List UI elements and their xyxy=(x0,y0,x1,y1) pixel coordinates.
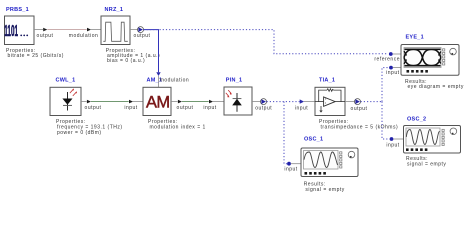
TIA_1 label xyxy=(319,77,335,83)
OSC_2 label xyxy=(407,117,426,123)
EYE_1 input label xyxy=(386,70,399,76)
svg-text:output: output xyxy=(351,106,368,112)
OSC_1 connector squares xyxy=(340,152,342,168)
OSC_1 buttons row xyxy=(305,172,326,175)
svg-text:bias = 0 (a.u.): bias = 0 (a.u.) xyxy=(107,58,145,64)
svg-text:modulation: modulation xyxy=(69,33,98,39)
TIA_1 op-amp icon xyxy=(315,89,345,113)
svg-text:input: input xyxy=(386,70,399,76)
NRZ_1 modulation input arrow xyxy=(87,28,91,32)
OSC_1 label xyxy=(304,137,323,143)
AM_1 output port label xyxy=(177,105,194,111)
svg-text:TIA_1: TIA_1 xyxy=(319,77,335,83)
AM_1 properties text xyxy=(148,119,206,130)
OSC_1 instrument box xyxy=(301,148,358,177)
AM_1 input stub xyxy=(133,101,143,103)
AM_1 label xyxy=(147,77,163,83)
svg-text:input: input xyxy=(386,142,399,148)
OSC_1 input node dot xyxy=(287,162,291,166)
EYE_1 connector squares xyxy=(443,49,445,65)
NRZ_1 box xyxy=(101,16,130,45)
EYE_1 instrument box xyxy=(401,45,459,76)
OSC_2 input label xyxy=(386,142,399,148)
AM_1 icon AM text xyxy=(146,93,170,111)
PRBS_1 properties text xyxy=(6,48,64,59)
NRZ_1 output port circle xyxy=(138,27,144,33)
svg-text:OSC_1: OSC_1 xyxy=(304,137,323,143)
PIN_1 output port label xyxy=(255,105,272,111)
PIN_1 label xyxy=(226,77,243,83)
svg-text:input: input xyxy=(284,166,297,172)
TIA_1 input label xyxy=(295,106,308,112)
PIN_1 output stub xyxy=(252,101,261,103)
TIA_1 properties text xyxy=(319,119,398,130)
OSC_2 knob xyxy=(450,128,457,135)
CWL_1 properties text xyxy=(56,119,123,136)
svg-text:transimpedance = 5 (kOhms): transimpedance = 5 (kOhms) xyxy=(321,125,399,131)
NRZ_1 icon waveform xyxy=(103,22,128,41)
svg-text:input: input xyxy=(203,105,216,111)
PIN_1 input arrow xyxy=(209,100,213,104)
PIN_1 box xyxy=(224,87,252,115)
PRBS_1 box xyxy=(5,16,35,45)
OSC_2 instrument box xyxy=(404,126,461,154)
svg-text:CWL_1: CWL_1 xyxy=(56,77,76,83)
wire junction to EYE_1.input (dashed) xyxy=(382,68,388,102)
OSC_2 input node dot xyxy=(390,137,394,141)
OSC_2 connector squares xyxy=(442,129,444,145)
PRBS_1 icon bits 1101... xyxy=(4,22,28,40)
OSC_1 input stub xyxy=(291,163,301,165)
NRZ_1 output port label xyxy=(134,33,151,39)
CWL_1 output port label xyxy=(85,105,102,111)
TIA_1 input stub xyxy=(304,101,315,103)
EYE_1 reference label xyxy=(374,56,400,62)
CWL_1 label xyxy=(56,77,76,83)
AM_1 input arrow xyxy=(129,100,133,104)
svg-text:input: input xyxy=(124,105,137,111)
EYE_1 input stub xyxy=(393,67,401,69)
svg-text:PIN_1: PIN_1 xyxy=(226,77,243,83)
EYE_1 screen with eye diagram xyxy=(404,48,441,68)
PRBS_1 output stub xyxy=(34,29,43,31)
OSC_1 input label xyxy=(284,166,297,172)
PIN_1 input stub xyxy=(213,101,224,103)
svg-text:1101: 1101 xyxy=(4,22,18,40)
NRZ_1 output stub xyxy=(130,29,138,31)
EYE_1 reference stub xyxy=(393,53,401,55)
svg-text:signal = empty: signal = empty xyxy=(407,161,446,167)
svg-text:modulation index = 1: modulation index = 1 xyxy=(150,125,206,131)
AM_1 modulation top label xyxy=(160,77,189,83)
PIN_1 input label xyxy=(203,105,216,111)
CWL_1 output port arrow xyxy=(87,100,91,104)
wire NRZ_1.output to AM_1.modulation (electrical) xyxy=(144,30,159,73)
wire AM_1.output to PIN_1.input (optical) xyxy=(182,101,209,103)
svg-text:signal = empty: signal = empty xyxy=(305,187,344,193)
EYE_1 label xyxy=(406,34,424,40)
TIA_1 input arrow xyxy=(300,99,304,103)
OSC_2 buttons row xyxy=(406,148,427,151)
svg-text:output: output xyxy=(37,33,54,39)
wire branch PIN_1.output to OSC_1.input (dashed) xyxy=(284,102,287,164)
svg-text:EYE_1: EYE_1 xyxy=(406,34,424,40)
AM_1 box xyxy=(143,87,171,115)
svg-text:modulation: modulation xyxy=(160,77,189,83)
wire PIN_1.output to TIA_1.input (dashed) xyxy=(267,101,300,103)
TIA_1 output port label xyxy=(351,106,368,112)
svg-text:PRBS_1: PRBS_1 xyxy=(6,7,29,13)
wire PRBS_1.output to NRZ_1.modulation (binary) xyxy=(47,29,86,31)
wire CWL_1.output to AM_1.input (optical) xyxy=(91,101,129,103)
svg-text:output: output xyxy=(255,105,272,111)
PIN_1 photodiode icon xyxy=(226,90,242,112)
TIA_1 output stub xyxy=(345,101,355,103)
OSC_1 screen with sine xyxy=(304,151,339,170)
AM_1 input label xyxy=(124,105,137,111)
svg-text:bitrate = 25 (Gbits/s): bitrate = 25 (Gbits/s) xyxy=(8,53,64,59)
svg-text:output: output xyxy=(177,105,194,111)
TIA_1 box xyxy=(315,87,345,115)
svg-text:reference: reference xyxy=(374,56,400,62)
CWL_1 box xyxy=(50,87,81,115)
PIN_1 output port circle xyxy=(261,99,267,105)
CWL_1 laser diode icon xyxy=(62,88,77,110)
PRBS_1 output port label xyxy=(37,33,54,39)
svg-text:OSC_2: OSC_2 xyxy=(407,117,426,123)
EYE_1 results text xyxy=(405,79,464,90)
svg-text:input: input xyxy=(295,106,308,112)
OSC_1 results text xyxy=(304,182,345,193)
wire junction to OSC_2.input (dashed) xyxy=(382,102,389,139)
EYE_1 knob xyxy=(450,48,457,55)
svg-text:output: output xyxy=(134,33,151,39)
wire NRZ_1.output to EYE_1.reference (dashed) xyxy=(144,30,389,54)
EYE_1 reference node dot xyxy=(389,52,393,56)
EYE_1 buttons row xyxy=(407,70,428,73)
svg-text:eye diagram = empty: eye diagram = empty xyxy=(408,84,464,90)
OSC_2 screen with sine xyxy=(406,128,440,146)
PRBS_1 output port arrow xyxy=(43,28,47,32)
CWL_1 output stub xyxy=(81,101,87,103)
svg-text:output: output xyxy=(85,105,102,111)
TIA_1 output port circle xyxy=(355,99,361,105)
wire TIA_1.output junction (dashed) xyxy=(361,101,382,103)
NRZ_1 modulation input label xyxy=(69,33,98,39)
svg-text:NRZ_1: NRZ_1 xyxy=(105,7,124,13)
OSC_1 knob xyxy=(348,151,355,158)
AM_1 modulation arrow (down) xyxy=(156,72,160,87)
OSC_2 results text xyxy=(406,156,446,168)
OSC_2 input stub xyxy=(393,138,403,140)
PRBS_1 label xyxy=(6,7,29,13)
svg-text:power = 0 (dBm): power = 0 (dBm) xyxy=(57,130,102,136)
AM_1 output port arrow xyxy=(178,100,182,104)
NRZ_1 properties text xyxy=(106,48,161,64)
NRZ_1 modulation input stub xyxy=(91,29,101,31)
NRZ_1 label xyxy=(105,7,124,13)
EYE_1 input node dot xyxy=(389,66,393,70)
svg-text:AM: AM xyxy=(146,93,170,111)
AM_1 output stub xyxy=(171,101,178,103)
